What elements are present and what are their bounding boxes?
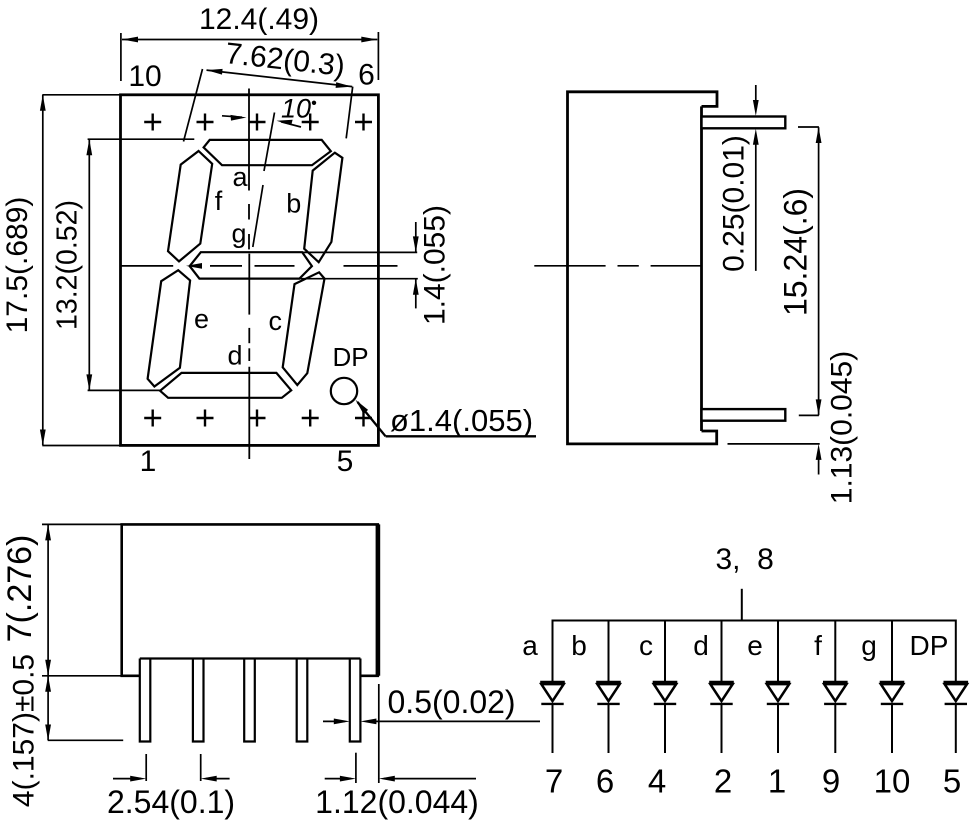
diode D-a (540, 682, 565, 704)
wire common anode stub (741, 589, 743, 621)
diode D-g (880, 682, 905, 704)
pin position cross marks (top row) (144, 114, 372, 131)
svg-text:c: c (269, 306, 283, 336)
diode D-dp (944, 682, 969, 704)
diode D-b anode wire (608, 620, 610, 682)
svg-text:10: 10 (874, 763, 911, 800)
segment e (148, 270, 191, 386)
svg-text:15.24(.6): 15.24(.6) (778, 188, 814, 316)
diode D-a cathode wire to pin 7 (552, 704, 554, 753)
FRONT VIEW (1, 3, 536, 478)
svg-text:e: e (194, 304, 209, 334)
thick right edge of body (376, 524, 381, 675)
svg-text:10: 10 (281, 94, 311, 124)
svg-text:1.4(.055): 1.4(.055) (419, 205, 452, 325)
svg-text:1.12(0.044): 1.12(0.044) (315, 784, 479, 820)
dimension 17.5(.689) (42, 94, 120, 96)
dimension 7.62(0.3) slanted (207, 70, 353, 87)
bottom lead (side view) (702, 409, 786, 421)
diode D-e anode wire (777, 620, 779, 682)
svg-text:d: d (228, 341, 243, 371)
diode D-b (596, 682, 621, 704)
diode D-dp cathode wire to pin 5 (955, 704, 957, 753)
BOTTOM VIEW (1, 524, 540, 820)
svg-text:4(.157)±0.5: 4(.157)±0.5 (8, 654, 41, 807)
diode D-f (823, 682, 848, 704)
segment a (204, 140, 331, 165)
svg-text:f: f (814, 630, 822, 661)
svg-text:b: b (286, 189, 301, 219)
diode D-e cathode wire to pin 1 (777, 704, 779, 753)
svg-text:c: c (639, 630, 653, 661)
segment b (304, 153, 342, 263)
svg-text:2.54(0.1): 2.54(0.1) (107, 784, 235, 820)
diode D-f cathode wire to pin 9 (834, 704, 836, 753)
svg-text:a: a (233, 162, 249, 192)
svg-text:ø1.4(.055): ø1.4(.055) (390, 403, 533, 438)
svg-text:DP: DP (910, 630, 949, 661)
dimension 12.4(.49) (120, 33, 122, 81)
svg-text:17.5(.689): 17.5(.689) (1, 197, 34, 334)
SCHEMATIC (522, 543, 968, 800)
lead 3 (bottom view) (244, 659, 255, 742)
svg-text:5: 5 (943, 763, 961, 800)
svg-text:12.4(.49): 12.4(.49) (199, 3, 319, 36)
display body outline (front view) (121, 95, 379, 446)
dimension 15.24(.6) lead row spacing (798, 126, 819, 128)
digit slant axis line (264, 113, 275, 172)
dimension 1.12(0.044) (355, 753, 357, 783)
svg-text:a: a (522, 630, 538, 661)
diode D-e (766, 682, 791, 704)
diode D-dp anode wire (955, 620, 957, 682)
segment c (283, 272, 325, 385)
dimension 1.13(0.045) standoff (728, 443, 820, 445)
svg-text:b: b (571, 630, 587, 661)
wire common bus (552, 620, 956, 622)
svg-text:6: 6 (596, 763, 614, 800)
dimension 2.54(0.1) lead pitch (145, 754, 147, 781)
lead 1 (bottom view) (140, 659, 151, 742)
SIDE VIEW (534, 85, 858, 504)
vertical centerline of front view (248, 89, 250, 460)
svg-text:13.2(0.52): 13.2(0.52) (52, 200, 84, 330)
diode D-d (709, 682, 734, 704)
svg-text:DP: DP (333, 342, 369, 372)
diode D-b cathode wire to pin 6 (608, 704, 610, 753)
package body outline (bottom-left view) (122, 524, 378, 675)
svg-text:1: 1 (768, 763, 786, 800)
side view body outline (568, 92, 718, 444)
DP diameter leader and label (356, 400, 369, 414)
lead 2 (bottom view) (193, 659, 204, 742)
svg-text:e: e (747, 630, 763, 661)
standoff line (140, 657, 361, 659)
diode D-g anode wire (891, 620, 893, 682)
dimension 0.5(0.02) lead width (323, 720, 345, 722)
diode D-f anode wire (834, 620, 836, 682)
segment g (190, 252, 312, 278)
dimension 1.4(.055) for segment g thickness (302, 251, 417, 253)
svg-text:4: 4 (648, 763, 666, 800)
svg-text:d: d (693, 630, 709, 661)
svg-text:10: 10 (128, 60, 161, 93)
dimension 7(.276) body height (42, 523, 122, 525)
diode D-c (653, 682, 678, 704)
svg-text:6: 6 (358, 59, 375, 92)
svg-text:5: 5 (337, 445, 354, 478)
svg-text:0.5(0.02): 0.5(0.02) (388, 684, 516, 720)
svg-text:1.13(0.045): 1.13(0.045) (826, 351, 859, 504)
svg-text:f: f (215, 186, 223, 216)
lead 4 (bottom view) (297, 659, 308, 742)
diode D-d anode wire (721, 620, 723, 682)
dimension 4(.157)+-0.5 lead length (48, 739, 123, 741)
svg-text:2: 2 (714, 763, 732, 800)
decimal point circle (331, 378, 357, 404)
svg-text:g: g (861, 630, 877, 661)
svg-text:1: 1 (140, 445, 157, 478)
diode D-g cathode wire to pin 10 (891, 704, 893, 753)
svg-text:9: 9 (822, 763, 840, 800)
svg-text:7(.276): 7(.276) (1, 535, 39, 643)
svg-text:8: 8 (757, 543, 774, 576)
svg-text:3,: 3, (715, 543, 740, 576)
horizontal centerline through segment g (120, 265, 173, 267)
pin position cross marks (bottom row) (144, 410, 372, 427)
dimension 13.2(0.52) (88, 138, 195, 140)
side body recessed face (700, 106, 703, 431)
diode D-d cathode wire to pin 2 (721, 704, 723, 753)
side view horizontal centerline (534, 265, 701, 267)
dimension 0.25(0.01) lead thickness (755, 85, 757, 101)
diode D-a anode wire (552, 620, 554, 682)
top lead (side view) (702, 117, 786, 129)
svg-text:0.25(0.01): 0.25(0.01) (718, 135, 751, 272)
segment f (168, 151, 212, 261)
segment d (160, 373, 291, 398)
svg-text:g: g (232, 219, 247, 249)
lead 5 (bottom view) (350, 659, 361, 742)
svg-text:7: 7 (545, 763, 563, 800)
diode D-c cathode wire to pin 4 (664, 704, 666, 753)
diode D-c anode wire (664, 620, 666, 682)
